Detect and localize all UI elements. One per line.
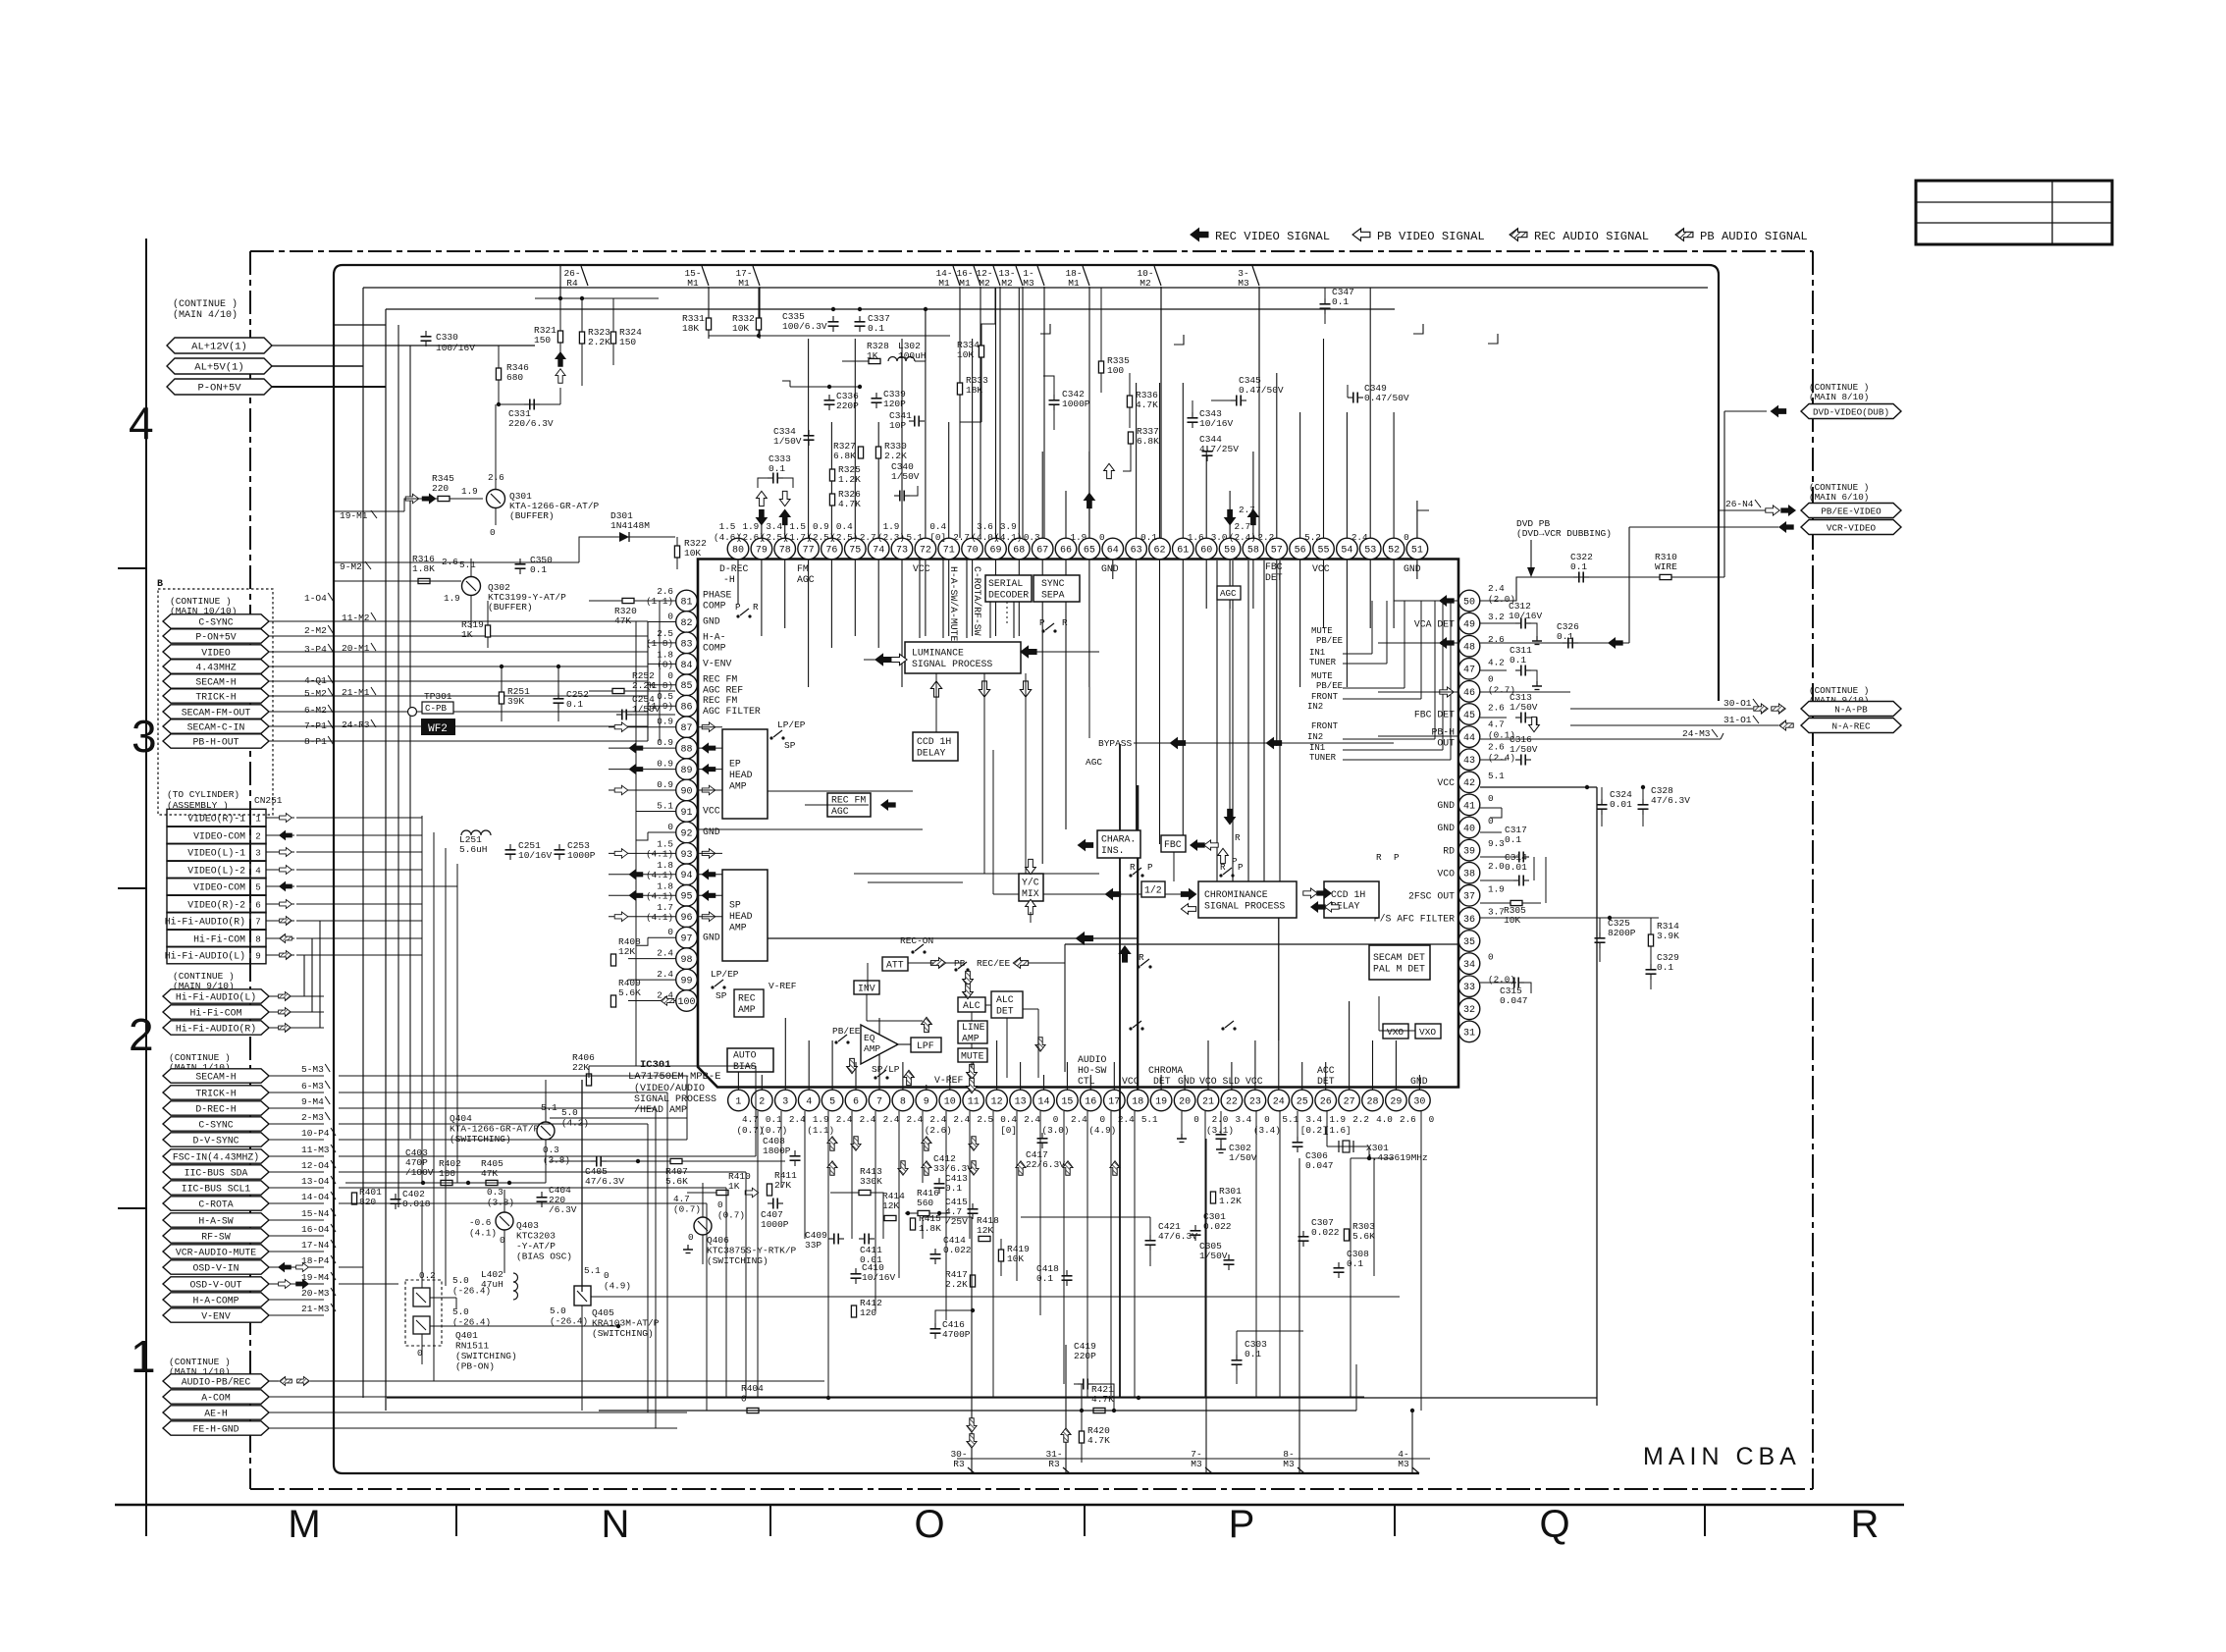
connector D-V-SYNC (163, 1133, 269, 1146)
wire P-ON+5V (272, 386, 386, 388)
svg-text:Q405: Q405 (592, 1307, 614, 1318)
frame bottom tick (1394, 1505, 1396, 1536)
svg-text:MUTE: MUTE (1311, 626, 1333, 636)
svg-text:D-REC: D-REC (719, 563, 749, 574)
pin 62 IC301 top (1149, 538, 1171, 560)
svg-text:8: 8 (900, 1096, 906, 1107)
wire Q405 (581, 1306, 583, 1411)
pin 16 IC301 bottom (1081, 1090, 1102, 1111)
svg-text:M3: M3 (1238, 278, 1249, 289)
pin 91 IC301 left (676, 801, 698, 823)
wire AL+5V (272, 365, 363, 367)
svg-text:10K: 10K (1007, 1253, 1024, 1264)
arrows OSD-V-OUT (279, 1280, 291, 1289)
pin 17 IC301 bottom (1104, 1090, 1126, 1111)
svg-text:4.7: 4.7 (1488, 719, 1505, 730)
svg-text:64: 64 (1107, 545, 1119, 556)
svg-text:3: 3 (132, 711, 157, 762)
resistor R314 (1648, 934, 1653, 946)
svg-text:FBC DET: FBC DET (1414, 710, 1455, 720)
wire secam det (957, 1458, 1430, 1460)
svg-text:KTA-1266-GR-AT/P: KTA-1266-GR-AT/P (450, 1124, 540, 1135)
resistor R413 (859, 1190, 871, 1195)
svg-text:M1: M1 (1068, 278, 1080, 289)
svg-text:(3.8): (3.8) (487, 1198, 514, 1208)
resistor R406 (586, 1074, 591, 1086)
svg-text:10K: 10K (1504, 915, 1520, 926)
wire N-A-REC (1570, 724, 1778, 726)
svg-text:(BUFFER): (BUFFER) (488, 602, 533, 613)
arrows right area (1119, 946, 1130, 962)
wire vertical bus x370 (362, 288, 364, 1398)
wire c421 row (1021, 1216, 1150, 1218)
svg-text:0.022: 0.022 (1203, 1221, 1232, 1232)
svg-text:22: 22 (1226, 1096, 1238, 1107)
capacitor C341 (914, 416, 916, 427)
svg-text:AUDIO: AUDIO (1078, 1054, 1107, 1065)
wire ccd delay lines (805, 804, 869, 806)
connector TRICK-H (163, 689, 269, 703)
svg-text:WIRE: WIRE (1655, 561, 1677, 572)
svg-text:2.6: 2.6 (1488, 742, 1505, 753)
svg-text:H-A-: H-A- (703, 632, 726, 643)
gnd pin97 (648, 936, 675, 938)
svg-text:CHARA.: CHARA. (1101, 834, 1136, 845)
legend PB AUDIO SIGNAL (1675, 229, 1693, 241)
svg-text:LPF: LPF (917, 1040, 934, 1051)
arrow into luminance (875, 654, 891, 665)
svg-text:24-R3: 24-R3 (342, 719, 370, 730)
svg-text:O: O (914, 1503, 944, 1546)
svg-text:(MAIN 4/10): (MAIN 4/10) (173, 309, 238, 321)
pin 41 IC301 right (1458, 794, 1480, 816)
frame left border line (145, 239, 147, 1536)
capacitor C336 (824, 400, 835, 401)
svg-text:3-P4: 3-P4 (304, 644, 327, 655)
pin 1 IC301 bottom (728, 1090, 750, 1111)
svg-text:18K: 18K (682, 323, 699, 334)
pin 94 IC301 left (676, 864, 698, 885)
svg-text:AGC: AGC (1086, 757, 1102, 768)
svg-text:1/50V: 1/50V (891, 471, 920, 482)
svg-text:(MAIN 8/10): (MAIN 8/10) (1809, 392, 1869, 402)
connector C-SYNC (163, 614, 269, 628)
arrows 19-M1 (405, 494, 419, 504)
wire C-SYNC (269, 1123, 324, 1125)
svg-text:90: 90 (680, 786, 692, 797)
svg-text:LP/EP: LP/EP (777, 719, 806, 730)
wire Hi-Fi-COM (269, 1011, 291, 1013)
svg-text:IIC-BUS SCL1: IIC-BUS SCL1 (182, 1183, 251, 1194)
svg-text:2.4: 2.4 (907, 1114, 924, 1125)
svg-text:100uH: 100uH (898, 350, 927, 361)
svg-text:BYPASS: BYPASS (1098, 738, 1133, 749)
pin 36 IC301 right (1458, 908, 1480, 930)
resistor R412 (851, 1306, 856, 1317)
arrow pin36 filter (1278, 918, 1280, 1040)
capacitor C254 (621, 710, 623, 720)
svg-text:GND: GND (703, 826, 720, 837)
resistor R417 (970, 1275, 975, 1287)
wire drops right labels (959, 287, 961, 538)
svg-text:FRONT: FRONT (1311, 721, 1339, 731)
svg-text:14-O4: 14-O4 (301, 1192, 330, 1202)
wire hifi riser 2 (291, 938, 312, 1012)
svg-text:P: P (735, 602, 741, 613)
svg-text:CN251: CN251 (254, 795, 283, 806)
svg-text:0.47/50V: 0.47/50V (1364, 393, 1409, 403)
svg-text:FSC-IN(4.43MHZ): FSC-IN(4.43MHZ) (173, 1151, 259, 1162)
svg-text:MIX: MIX (1022, 888, 1039, 899)
pin 50 IC301 right (1458, 590, 1480, 612)
svg-text:1.6: 1.6 (1188, 532, 1204, 543)
svg-text:GND: GND (703, 932, 720, 942)
resistor R421 (1093, 1408, 1105, 1412)
gnd marks top (1040, 324, 1050, 334)
wire A-COM (269, 1396, 1364, 1398)
frame bottom border line (115, 1504, 1904, 1507)
svg-text:0.1: 0.1 (1347, 1258, 1363, 1269)
dash-dot boundary bottom (250, 1488, 1813, 1490)
svg-text:2FSC OUT: 2FSC OUT (1408, 891, 1455, 902)
wire cn251 joins (422, 885, 457, 887)
svg-text:IN2: IN2 (1307, 732, 1323, 742)
connector VIDEO (163, 645, 269, 659)
svg-text:P-ON+5V: P-ON+5V (197, 383, 241, 395)
connector AL+12V(1) (167, 338, 272, 353)
svg-text:(4.1): (4.1) (469, 1228, 497, 1239)
svg-text:VCC: VCC (913, 563, 930, 574)
resistor R346 (496, 368, 501, 380)
svg-text:TUNER: TUNER (1309, 658, 1337, 667)
svg-text:REC: REC (738, 993, 756, 1004)
svg-text:2.7: 2.7 (953, 532, 970, 543)
wire CN251-4 (266, 869, 294, 871)
svg-text:(2.6): (2.6) (925, 1125, 952, 1136)
connector SECAM-C-IN (163, 719, 269, 733)
svg-text:1: 1 (735, 1096, 741, 1107)
svg-text:24-M3: 24-M3 (1682, 728, 1711, 739)
resistor R416 (918, 1210, 929, 1215)
svg-text:C-PB: C-PB (425, 703, 448, 714)
svg-text:0.022: 0.022 (1311, 1227, 1340, 1238)
svg-text:0: 0 (1488, 952, 1494, 963)
svg-text:5: 5 (255, 882, 261, 893)
svg-text:IN1: IN1 (1309, 743, 1325, 753)
svg-text:R: R (1062, 617, 1068, 628)
wire chrominance verticals (1216, 560, 1218, 881)
wire pins 81-86 stubs (648, 600, 675, 602)
svg-text:(SWITCHING): (SWITCHING) (707, 1255, 768, 1266)
wire 3-M3 drop (1258, 287, 1260, 393)
svg-text:AMP: AMP (738, 1004, 756, 1015)
capacitor C404 (537, 1197, 548, 1199)
svg-text:REC FM: REC FM (703, 695, 737, 706)
svg-text:60: 60 (1200, 545, 1212, 556)
svg-text:PB/EE: PB/EE (1316, 636, 1343, 646)
svg-text:SERIAL: SERIAL (988, 578, 1023, 589)
title block table top-right (1916, 181, 2112, 244)
wire CN251-6 (266, 903, 294, 905)
svg-text:AL+12V(1): AL+12V(1) (191, 342, 247, 353)
svg-text:49: 49 (1463, 620, 1475, 631)
vertical right small bus (1545, 857, 1547, 903)
svg-text:0: 0 (1488, 673, 1494, 684)
wire Q403 (503, 1190, 505, 1212)
svg-text:R: R (1220, 862, 1226, 873)
svg-text:M1: M1 (959, 278, 971, 289)
svg-text:(4.9): (4.9) (1088, 1125, 1116, 1136)
svg-text:63: 63 (1131, 545, 1142, 556)
svg-text:0.1: 0.1 (1332, 296, 1349, 307)
svg-text:AGC REF: AGC REF (703, 685, 743, 696)
connector VCR-VIDEO (1801, 520, 1901, 535)
legend PB VIDEO SIGNAL (1352, 229, 1370, 241)
svg-text:VXO: VXO (1419, 1027, 1436, 1038)
svg-text:R3: R3 (953, 1459, 965, 1469)
svg-text:(2.4): (2.4) (1229, 532, 1256, 543)
svg-text:AL+5V(1): AL+5V(1) (194, 362, 243, 374)
wire VCR-AUDIO-MUTE (269, 1251, 324, 1252)
pin 21 IC301 bottom (1197, 1090, 1219, 1111)
svg-text:/HEAD AMP: /HEAD AMP (634, 1104, 687, 1116)
svg-text:0.1: 0.1 (1657, 962, 1673, 973)
legend REC VIDEO SIGNAL (1191, 229, 1208, 241)
svg-text:13-O4: 13-O4 (301, 1176, 330, 1187)
pin 33 IC301 right (1458, 976, 1480, 997)
svg-text:15: 15 (1061, 1096, 1073, 1107)
svg-text:V-ENV: V-ENV (703, 659, 732, 669)
svg-text:1K: 1K (728, 1181, 740, 1192)
svg-text:1000P: 1000P (567, 850, 596, 861)
arrow pair pins79-78 (757, 509, 768, 524)
wire alc det down (1006, 1018, 1008, 1078)
resistor R330 (875, 447, 880, 458)
wire VCC pin18 thick (1137, 785, 1139, 1090)
svg-text:4.7/25V: 4.7/25V (1199, 444, 1239, 454)
svg-text:3.2: 3.2 (1488, 612, 1505, 622)
svg-text:REC FM: REC FM (831, 795, 866, 806)
resistor R326 (829, 494, 834, 506)
pin 72 IC301 top (915, 538, 936, 560)
wire bundle top pins down (737, 560, 739, 606)
svg-text:FM: FM (797, 563, 809, 574)
pin 23 IC301 bottom (1245, 1090, 1266, 1111)
svg-text:53: 53 (1364, 545, 1376, 556)
svg-text:(CONTINUE ): (CONTINUE ) (173, 298, 238, 310)
svg-text:(MAIN 6/10): (MAIN 6/10) (1809, 492, 1869, 503)
svg-text:74: 74 (873, 545, 884, 556)
svg-text:PB AUDIO SIGNAL: PB AUDIO SIGNAL (1700, 230, 1808, 243)
wire 19-M1 (334, 510, 404, 512)
pin 20 IC301 bottom (1174, 1090, 1195, 1111)
block LINE AMP (958, 1021, 987, 1043)
svg-text:A-COM: A-COM (201, 1392, 231, 1403)
svg-text:10K: 10K (957, 349, 974, 360)
svg-text:P/S AFC FILTER: P/S AFC FILTER (1374, 914, 1455, 925)
svg-text:39: 39 (1463, 847, 1475, 858)
pin 13 IC301 bottom (1010, 1090, 1032, 1111)
svg-text:0.1: 0.1 (1557, 631, 1573, 642)
wire SECAM-C-IN (269, 725, 648, 727)
svg-text:0.1: 0.1 (945, 1183, 962, 1194)
svg-text:96: 96 (680, 913, 692, 924)
svg-text:/25V: /25V (945, 1216, 968, 1227)
svg-text:HEAD: HEAD (729, 911, 753, 922)
wire vertical bus x406 (397, 325, 399, 1207)
svg-text:6: 6 (255, 900, 261, 911)
svg-text:4700P: 4700P (942, 1329, 971, 1340)
svg-text:4.7K: 4.7K (838, 499, 861, 509)
svg-text:9: 9 (924, 1096, 929, 1107)
wire vcc right riser (1596, 787, 1598, 1406)
svg-text:12: 12 (991, 1096, 1003, 1107)
svg-text:17: 17 (1108, 1096, 1120, 1107)
svg-text:H-A-COMP: H-A-COMP (192, 1295, 238, 1306)
wire group4 bundle verticals (686, 1076, 688, 1140)
pin 42 IC301 right (1458, 772, 1480, 793)
svg-text:0: 0 (667, 822, 673, 832)
svg-text:38: 38 (1463, 870, 1475, 880)
resistor R334 (979, 346, 983, 357)
svg-text:40: 40 (1463, 824, 1475, 834)
svg-text:2.4: 2.4 (657, 969, 673, 980)
svg-text:2.2K: 2.2K (884, 451, 907, 461)
wire Q401 (421, 1203, 423, 1288)
wire OSD-V-IN (269, 1266, 324, 1268)
svg-text:Q404: Q404 (450, 1113, 472, 1124)
dotted group box B (158, 589, 273, 815)
svg-text:68: 68 (1013, 545, 1025, 556)
connector C-ROTA (163, 1197, 269, 1210)
svg-text:VCO: VCO (1437, 868, 1455, 879)
svg-text:5: 5 (829, 1096, 835, 1107)
connector CN251 pin 7 Hi-Fi-AUDIO(R) (167, 912, 250, 930)
svg-text:REC VIDEO SIGNAL: REC VIDEO SIGNAL (1215, 230, 1330, 243)
svg-text:AGC: AGC (797, 574, 815, 585)
wire SECAM-FM-OUT (269, 711, 648, 713)
connector Hi-Fi-AUDIO(R) (163, 1021, 269, 1035)
connector DVD-VIDEO(DUB) (1801, 404, 1901, 419)
svg-text:CCD 1H: CCD 1H (1331, 889, 1365, 900)
block CHARA. INS. (1097, 830, 1140, 858)
svg-text:GND: GND (1101, 563, 1119, 574)
wire AUDIO-PB/REC (310, 1380, 824, 1382)
svg-text:23: 23 (1249, 1096, 1261, 1107)
connector 4.43MHZ (163, 660, 269, 673)
op-amp EQ AMP triangle (861, 1025, 898, 1064)
resistor R301 (1210, 1192, 1215, 1203)
svg-text:EQ: EQ (864, 1033, 875, 1043)
wire chroma columns (1181, 1111, 1183, 1139)
svg-text:D-REC-H: D-REC-H (195, 1103, 236, 1114)
svg-text:30-O1: 30-O1 (1723, 698, 1752, 709)
wire agc vertical (1229, 600, 1231, 825)
svg-text:86: 86 (680, 703, 692, 714)
svg-text:120P: 120P (883, 399, 906, 409)
svg-text:10: 10 (944, 1096, 956, 1107)
svg-text:VCC: VCC (703, 806, 720, 817)
svg-text:7: 7 (876, 1096, 882, 1107)
svg-text:6.8K: 6.8K (1137, 436, 1159, 447)
dash-dot boundary top (250, 250, 1813, 252)
svg-text:5.1: 5.1 (907, 532, 924, 543)
capacitor C331 (529, 400, 531, 410)
connector SECAM-H (163, 1069, 269, 1083)
svg-text:R: R (1130, 862, 1136, 873)
svg-text:71: 71 (943, 545, 955, 556)
frame bottom tick (769, 1505, 771, 1536)
pin 46 IC301 right (1458, 681, 1480, 703)
svg-text:1.9: 1.9 (444, 593, 460, 604)
wire vxo (1031, 1458, 1408, 1460)
svg-text:REC-ON: REC-ON (900, 935, 933, 946)
svg-text:76: 76 (825, 545, 837, 556)
svg-text:SIGNAL PROCESS: SIGNAL PROCESS (1204, 901, 1285, 912)
pin 79 IC301 top (751, 538, 772, 560)
svg-text:FBC: FBC (1164, 839, 1182, 850)
resistor R402 (441, 1180, 452, 1185)
svg-text:16: 16 (1085, 1096, 1096, 1107)
svg-text:2.0: 2.0 (1212, 1114, 1229, 1125)
svg-text:RF-SW: RF-SW (201, 1231, 231, 1242)
svg-text:20: 20 (1179, 1096, 1191, 1107)
svg-text:R4: R4 (566, 278, 578, 289)
svg-text:67: 67 (1036, 545, 1048, 556)
svg-text:2.4: 2.4 (657, 948, 673, 959)
wire pin36 net (1480, 917, 1659, 919)
frame bottom tick (1084, 1505, 1086, 1536)
svg-text:35: 35 (1463, 937, 1475, 948)
svg-text:100/6.3V: 100/6.3V (782, 321, 827, 332)
svg-text:220P: 220P (836, 400, 859, 411)
connector FSC-IN(4.43MHZ) (163, 1149, 269, 1163)
svg-text:12-O4: 12-O4 (301, 1160, 330, 1171)
wire pin41 gnd (1480, 807, 1502, 809)
pin 82 IC301 left (676, 612, 698, 633)
svg-text:0.3: 0.3 (1024, 532, 1040, 543)
svg-text:0.1: 0.1 (1570, 561, 1587, 572)
svg-text:SYNC: SYNC (1041, 578, 1065, 589)
svg-text:/6.3V: /6.3V (549, 1204, 577, 1215)
connector SECAM-H (163, 674, 269, 688)
svg-text:32: 32 (1463, 1005, 1475, 1016)
svg-text:31: 31 (1463, 1028, 1475, 1039)
wire P-ON+5V (269, 635, 648, 637)
wire hifi riser 1 (291, 955, 304, 996)
svg-text:5.1: 5.1 (459, 560, 476, 570)
svg-text:52: 52 (1388, 545, 1400, 556)
svg-text:2.5: 2.5 (977, 1114, 993, 1125)
svg-text:TUNER: TUNER (1309, 753, 1337, 763)
svg-text:120: 120 (860, 1307, 876, 1318)
svg-text:6-M3: 6-M3 (301, 1081, 324, 1092)
svg-text:3: 3 (782, 1096, 788, 1107)
svg-text:150: 150 (619, 337, 636, 347)
svg-text:31-O1: 31-O1 (1723, 715, 1752, 725)
svg-text:0.047: 0.047 (1305, 1160, 1334, 1171)
svg-text:VXO: VXO (1387, 1027, 1404, 1038)
arrows AUDIO-PB/REC (269, 1380, 279, 1382)
svg-text:VCA DET: VCA DET (1414, 618, 1455, 629)
resistor R321 (557, 331, 562, 343)
svg-text:0.47/50V: 0.47/50V (1239, 385, 1284, 396)
connector CN251 pin 9 Hi-Fi-AUDIO(L) (167, 946, 250, 964)
svg-text:0.4: 0.4 (1000, 1114, 1017, 1125)
block ALC (958, 997, 985, 1012)
svg-text:50: 50 (1463, 597, 1475, 608)
svg-text:VCC: VCC (1122, 1076, 1139, 1087)
